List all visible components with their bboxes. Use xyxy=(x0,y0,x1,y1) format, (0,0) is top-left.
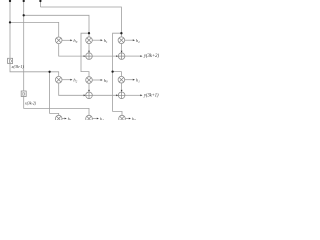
node input B top xyxy=(23,0,25,2)
arrowhead coefficient row2 col2 xyxy=(101,79,103,81)
wire coefficient arrow row1 col2 xyxy=(92,39,100,41)
multiply cross U3 xyxy=(119,38,124,43)
wire coefficient arrow row2 col3 xyxy=(125,79,133,81)
svg-text:D: D xyxy=(22,92,25,97)
node input C top xyxy=(39,0,41,2)
wire coefficient arrow row1 col1 xyxy=(62,39,70,41)
wire branch to multiplier row3 col1 xyxy=(50,72,59,116)
svg-text:h2: h2 xyxy=(73,78,77,84)
adder A4 row2 col3 xyxy=(118,92,125,99)
multiply cross U9 xyxy=(120,116,125,121)
plus cross A1 xyxy=(86,53,93,60)
wire input A vertical x=10 xyxy=(9,1,11,58)
node input A top xyxy=(9,0,11,2)
wire adder row2 col2 to adder row2 col3 xyxy=(92,94,116,96)
wire input B vertical x=23.7 xyxy=(23,1,25,91)
arrowhead coefficient row3 col1 xyxy=(65,118,67,120)
wire branch col3 down to multiplier row3 col3 xyxy=(113,72,122,116)
svg-text:h2: h2 xyxy=(100,116,104,120)
wire coefficient arrow row3 col1 xyxy=(62,118,65,120)
wire coefficient arrow row3 col3 xyxy=(125,118,129,120)
wire coefficient arrow row2 col1 xyxy=(62,79,70,81)
multiplier U5 row2 col2 xyxy=(86,77,93,84)
svg-text:x(3k-2): x(3k-2) xyxy=(24,100,36,105)
adder A1 row1 col2 xyxy=(86,53,93,60)
svg-text:h1: h1 xyxy=(68,116,72,120)
multiplier U9 row3 col3 xyxy=(119,115,126,122)
wire input C vertical x=40.4 xyxy=(39,1,41,7)
wire multiplier row2 col1 output to adder row2 col2 xyxy=(59,83,84,95)
delay D1 box xyxy=(8,58,13,63)
node junction col3 xyxy=(120,32,122,34)
arrowhead coefficient row3 col2 xyxy=(97,118,99,120)
node junction col3 row2 xyxy=(111,70,113,72)
multiplier U2 row1 col2 xyxy=(86,37,93,44)
arrowhead into adder A1 left xyxy=(84,55,86,57)
multiplier U4 row2 col1 xyxy=(55,76,62,83)
svg-text:x(3k-1): x(3k-1) xyxy=(11,64,25,69)
wire feeder B to multiplier row1 col2 xyxy=(24,15,89,37)
arrowhead into adder A1 top xyxy=(88,51,90,53)
wire branch col2 to multiplier row2 col2 xyxy=(81,33,89,76)
arrowhead output y(3k+2) xyxy=(140,55,142,57)
wire coefficient arrow row2 col2 xyxy=(92,79,100,81)
svg-text:h2: h2 xyxy=(136,38,140,44)
arrowhead coefficient row2 col3 xyxy=(133,79,135,81)
svg-text:h1: h1 xyxy=(104,38,108,44)
arrowhead into adder A3 left xyxy=(84,94,86,96)
svg-text:h0: h0 xyxy=(73,38,77,44)
wire adder row1 col3 to output y(3k+2) xyxy=(125,55,141,57)
arrowhead coefficient row1 col1 xyxy=(70,39,72,41)
adder A2 row1 col3 xyxy=(118,53,125,60)
wire multiplier row1 col2 output down to adder xyxy=(88,44,90,52)
multiplier U6 row2 col3 xyxy=(118,76,125,83)
adder A3 row2 col2 xyxy=(86,92,93,99)
wire multiplier row2 col3 output down to adder xyxy=(120,83,122,90)
multiplier U3 row1 col3 xyxy=(118,37,125,44)
arrowhead into adder A4 left xyxy=(116,94,118,96)
wire branch col3 to multiplier row2 col3 xyxy=(113,33,122,76)
wire multiplier row2 col2 output down to adder xyxy=(88,83,90,90)
arrowhead into adder A2 left xyxy=(116,55,118,57)
svg-text:h1: h1 xyxy=(136,78,140,84)
multiply cross U5 xyxy=(87,78,92,83)
wire below delay D2 to multiplier row3 col2 xyxy=(24,97,89,116)
svg-text:h0: h0 xyxy=(132,116,136,120)
node junction A row1 xyxy=(9,21,11,23)
arrowhead coefficient row1 col3 xyxy=(133,39,135,41)
node junction col2 xyxy=(88,32,90,34)
delay D2 box xyxy=(21,91,26,97)
multiplier U1 row1 col1 xyxy=(55,37,62,44)
wire coefficient arrow row3 col2 xyxy=(92,118,97,120)
wire coefficient arrow row1 col3 xyxy=(125,39,133,41)
multiply cross U4 xyxy=(56,77,61,82)
multiply cross U1 xyxy=(56,38,61,43)
arrowhead coefficient row2 col1 xyxy=(70,79,72,81)
node junction delayed A xyxy=(48,71,50,73)
arrowhead into adder A4 top xyxy=(121,90,123,92)
plus cross A4 xyxy=(118,92,125,99)
wire adder row2 col3 to output y(3k+1) xyxy=(125,94,141,96)
svg-text:y(3k+1): y(3k+1) xyxy=(143,91,159,98)
arrowhead coefficient row3 col3 xyxy=(129,118,131,120)
plus cross A2 xyxy=(118,53,125,60)
multiplier U7 row3 col1 xyxy=(55,115,62,122)
node junction B row1 xyxy=(23,14,25,16)
plus cross A3 xyxy=(86,92,93,99)
arrowhead output y(3k+1) xyxy=(140,94,142,96)
multiply cross U8 xyxy=(87,116,92,121)
wire below delay D1 to multiplier row2 col1 xyxy=(10,64,59,77)
svg-text:D: D xyxy=(9,59,12,64)
wire feeder A to multiplier row1 col1 xyxy=(10,22,59,37)
wire multiplier row1 col1 output to adder row1 col2 xyxy=(59,44,84,57)
arrowhead into adder A3 top xyxy=(88,90,90,92)
arrowhead coefficient row1 col2 xyxy=(101,39,103,41)
svg-text:h0: h0 xyxy=(104,78,108,84)
multiply cross U6 xyxy=(119,77,124,82)
svg-text:y(3k+2): y(3k+2) xyxy=(143,52,159,59)
arrowhead into adder A2 top xyxy=(121,51,123,53)
wire feeder C to multiplier row1 col3 xyxy=(40,7,121,37)
multiply cross U7 xyxy=(56,116,61,121)
wire adder row1 col2 to adder row1 col3 xyxy=(92,55,116,57)
wire multiplier row1 col3 output down to adder xyxy=(120,44,122,52)
multiplier U8 row3 col2 xyxy=(86,115,93,122)
multiply cross U2 xyxy=(87,38,92,43)
